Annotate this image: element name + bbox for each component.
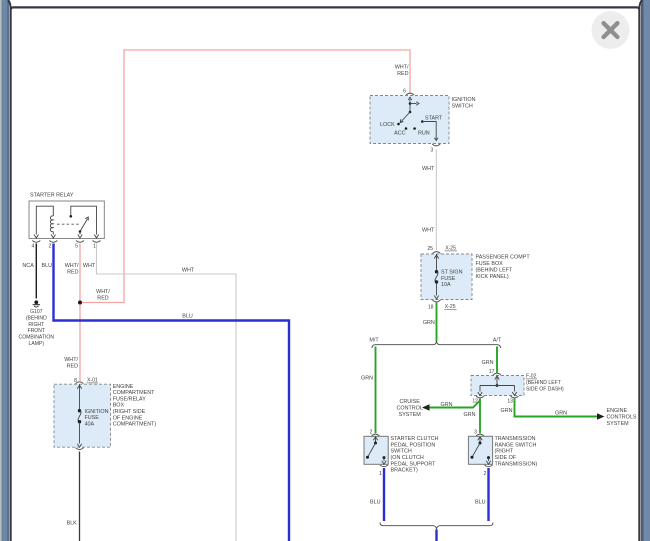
wire WHT/RED: relay pin5 to junction, up-over to ignition pin 6, and down to engine fuse box pin 8 — [80, 50, 410, 303]
wire BLK: relay pin4 down to ground G107 — [35, 244, 37, 299]
svg-text:FUSE BOX: FUSE BOX — [476, 261, 504, 267]
ignition switch internals — [380, 97, 443, 140]
svg-text:TRANSMISSION): TRANSMISSION) — [495, 461, 538, 467]
wire GRN: F-02 pin13 down-right to engine controls — [515, 399, 599, 417]
relay dashed actuator link — [57, 223, 80, 225]
svg-text:WHT/: WHT/ — [395, 65, 409, 71]
svg-text:RUN: RUN — [418, 131, 430, 137]
svg-text:RED: RED — [67, 364, 78, 370]
svg-text:STARTER CLUTCH: STARTER CLUTCH — [391, 436, 439, 442]
svg-text:RED: RED — [397, 71, 408, 77]
svg-text:CRUISE: CRUISE — [400, 399, 421, 405]
svg-text:CONTROL: CONTROL — [397, 406, 423, 412]
svg-text:10A: 10A — [441, 282, 451, 288]
close button — [592, 11, 630, 49]
svg-text:SIDE OF DASH): SIDE OF DASH) — [526, 387, 564, 393]
svg-text:6: 6 — [403, 89, 406, 95]
wire BLU: relay pin2 down, right, down to bottom edge — [54, 244, 290, 541]
relay switch branch — [70, 206, 99, 238]
svg-text:18: 18 — [428, 305, 434, 311]
svg-text:GRN: GRN — [361, 376, 373, 382]
ignition switch box — [370, 96, 449, 144]
svg-text:BRACKET): BRACKET) — [391, 468, 418, 474]
svg-text:FRONT: FRONT — [28, 328, 46, 334]
pin 2 — [485, 465, 493, 467]
top corner nubs — [8, 0, 10, 9]
svg-text:F-02: F-02 — [526, 374, 537, 380]
svg-text:FUSE/RELAY: FUSE/RELAY — [113, 396, 147, 402]
junction dot WHT/RED node — [78, 301, 82, 305]
svg-text:LOCK: LOCK — [380, 122, 395, 128]
svg-text:OF ENGINE: OF ENGINE — [113, 415, 143, 421]
pins 12 / 13 — [476, 396, 484, 398]
wire GRN: branch to cruise control — [425, 401, 480, 408]
svg-text:13: 13 — [507, 399, 513, 405]
right blue strip — [641, 0, 650, 541]
bottom pin arc — [76, 448, 84, 450]
svg-text:ACC: ACC — [394, 131, 405, 137]
svg-text:WHT: WHT — [182, 268, 195, 274]
svg-text:X-25: X-25 — [445, 246, 456, 252]
svg-text:12: 12 — [472, 399, 478, 405]
svg-text:(BEHIND LEFT: (BEHIND LEFT — [526, 380, 561, 386]
svg-text:WHT: WHT — [422, 166, 435, 172]
connector F-02 box — [471, 376, 524, 396]
svg-text:FUSE: FUSE — [441, 276, 456, 282]
svg-text:RED: RED — [97, 296, 108, 302]
svg-text:1: 1 — [93, 244, 96, 250]
F-02 internals — [478, 376, 517, 396]
svg-text:LAMP): LAMP) — [29, 341, 45, 347]
svg-text:RANGE SWITCH: RANGE SWITCH — [495, 442, 537, 448]
fuse IGNITION 40A — [77, 384, 108, 447]
svg-text:GRN: GRN — [441, 402, 453, 408]
svg-text:COMPARTMENT: COMPARTMENT — [113, 390, 155, 396]
svg-text:GRN: GRN — [423, 320, 435, 326]
svg-text:IGNITION: IGNITION — [85, 409, 109, 415]
svg-text:4: 4 — [31, 244, 34, 250]
svg-text:PASSENGER COMPT: PASSENGER COMPT — [476, 255, 531, 261]
svg-text:X-01: X-01 — [87, 378, 98, 384]
svg-text:IGNITION: IGNITION — [452, 97, 476, 103]
svg-text:SYSTEM: SYSTEM — [399, 412, 422, 418]
svg-text:RIGHT: RIGHT — [28, 322, 44, 328]
svg-text:PEDAL POSITION: PEDAL POSITION — [391, 442, 436, 448]
svg-text:BLK: BLK — [67, 521, 78, 527]
svg-text:COMBINATION: COMBINATION — [19, 335, 55, 341]
svg-text:X-25: X-25 — [445, 304, 456, 310]
passenger compt fuse box — [421, 254, 472, 300]
svg-text:3: 3 — [430, 148, 433, 154]
svg-text:2: 2 — [370, 430, 373, 436]
pin 1 — [380, 465, 388, 467]
svg-text:RED: RED — [67, 270, 78, 276]
svg-text:STARTER RELAY: STARTER RELAY — [30, 192, 74, 198]
svg-text:G107: G107 — [30, 309, 43, 315]
svg-text:BLU: BLU — [42, 263, 53, 269]
svg-text:5: 5 — [75, 244, 78, 250]
engine compartment fuse/relay box — [54, 384, 111, 447]
wire BLU: merged drop to bottom edge — [435, 530, 437, 541]
engine controls arrow + text — [597, 413, 605, 419]
svg-text:BLU: BLU — [370, 500, 381, 506]
svg-text:SIDE OF: SIDE OF — [495, 455, 517, 461]
clutch switch internals — [366, 436, 386, 464]
svg-text:(BEHIND LEFT: (BEHIND LEFT — [476, 268, 514, 274]
svg-text:(ON CLUTCH: (ON CLUTCH — [391, 455, 424, 461]
transmission range switch box — [468, 436, 492, 464]
svg-text:WHT/: WHT/ — [96, 289, 110, 295]
wire WHT: ignition pin3 down to passenger fuse pin 25 — [435, 150, 437, 251]
svg-text:3: 3 — [474, 430, 477, 436]
fuse ST SIGN 10A — [434, 254, 462, 299]
svg-text:WHT: WHT — [422, 228, 435, 234]
svg-text:COMPARTMENT): COMPARTMENT) — [113, 422, 157, 428]
wire GRN: A/T branch down to F-02 pin 17 — [496, 347, 498, 373]
relay coil branch — [34, 206, 55, 238]
svg-text:(BEHIND: (BEHIND — [26, 315, 47, 321]
svg-text:WHT: WHT — [83, 263, 96, 269]
svg-text:PEDAL SUPPORT: PEDAL SUPPORT — [391, 461, 437, 467]
left blue strip — [0, 0, 9, 541]
svg-text:BLU: BLU — [182, 314, 193, 320]
svg-text:KICK PANEL): KICK PANEL) — [476, 274, 509, 280]
pin 18 / X-25 — [433, 300, 441, 302]
svg-text:40A: 40A — [85, 422, 95, 428]
wire BLU: trans switch bottom — [487, 468, 489, 521]
starter clutch switch box — [364, 436, 388, 464]
svg-text:SYSTEM: SYSTEM — [607, 421, 630, 427]
svg-text:START: START — [425, 116, 443, 122]
svg-text:GRN: GRN — [501, 408, 513, 414]
svg-text:BOX: BOX — [113, 403, 125, 409]
svg-text:25: 25 — [427, 246, 433, 252]
wire GRN: M/T branch down to clutch switch pin 2 — [375, 347, 377, 434]
cruise control arrow + text — [422, 404, 430, 410]
relay pin connector arcs — [32, 241, 40, 243]
wire BLK: engine fuse box bottom to page bottom — [79, 452, 81, 541]
wire GRN: fuse 18 down to M/T-A/T split — [436, 303, 438, 342]
svg-text:SWITCH: SWITCH — [452, 104, 473, 110]
svg-text:A/T: A/T — [493, 338, 502, 344]
svg-text:ENGINE: ENGINE — [607, 408, 628, 414]
starter relay box — [29, 192, 104, 238]
svg-text:TRANSMISSION: TRANSMISSION — [495, 436, 536, 442]
wire WHT: relay pin1 right-down to bottom edge — [97, 244, 237, 541]
svg-text:ST SIGN: ST SIGN — [441, 269, 463, 275]
svg-text:NCA: NCA — [22, 263, 34, 269]
svg-text:1: 1 — [379, 471, 382, 477]
svg-text:(RIGHT: (RIGHT — [495, 449, 514, 455]
svg-text:GRN: GRN — [555, 411, 567, 417]
svg-text:SWITCH: SWITCH — [391, 449, 412, 455]
pin 3 — [432, 144, 440, 146]
svg-text:ENGINE: ENGINE — [113, 384, 134, 390]
svg-text:BLU: BLU — [475, 500, 486, 506]
wire BLU: clutch switch bottom — [383, 468, 385, 521]
svg-text:WHT/: WHT/ — [64, 357, 78, 363]
svg-text:2: 2 — [483, 471, 486, 477]
svg-text:CONTROLS: CONTROLS — [607, 414, 637, 420]
trans switch internals — [471, 436, 491, 464]
svg-text:2: 2 — [48, 244, 51, 250]
svg-text:(RIGHT SIDE: (RIGHT SIDE — [113, 409, 146, 415]
svg-text:WHT/: WHT/ — [65, 263, 79, 269]
wire GRN: F-02 pin12 down to trans switch pin 3 — [479, 399, 481, 434]
svg-text:M/T: M/T — [369, 338, 379, 344]
svg-text:GRN: GRN — [464, 412, 476, 418]
svg-text:FUSE: FUSE — [85, 415, 100, 421]
svg-text:GRN: GRN — [482, 360, 494, 366]
